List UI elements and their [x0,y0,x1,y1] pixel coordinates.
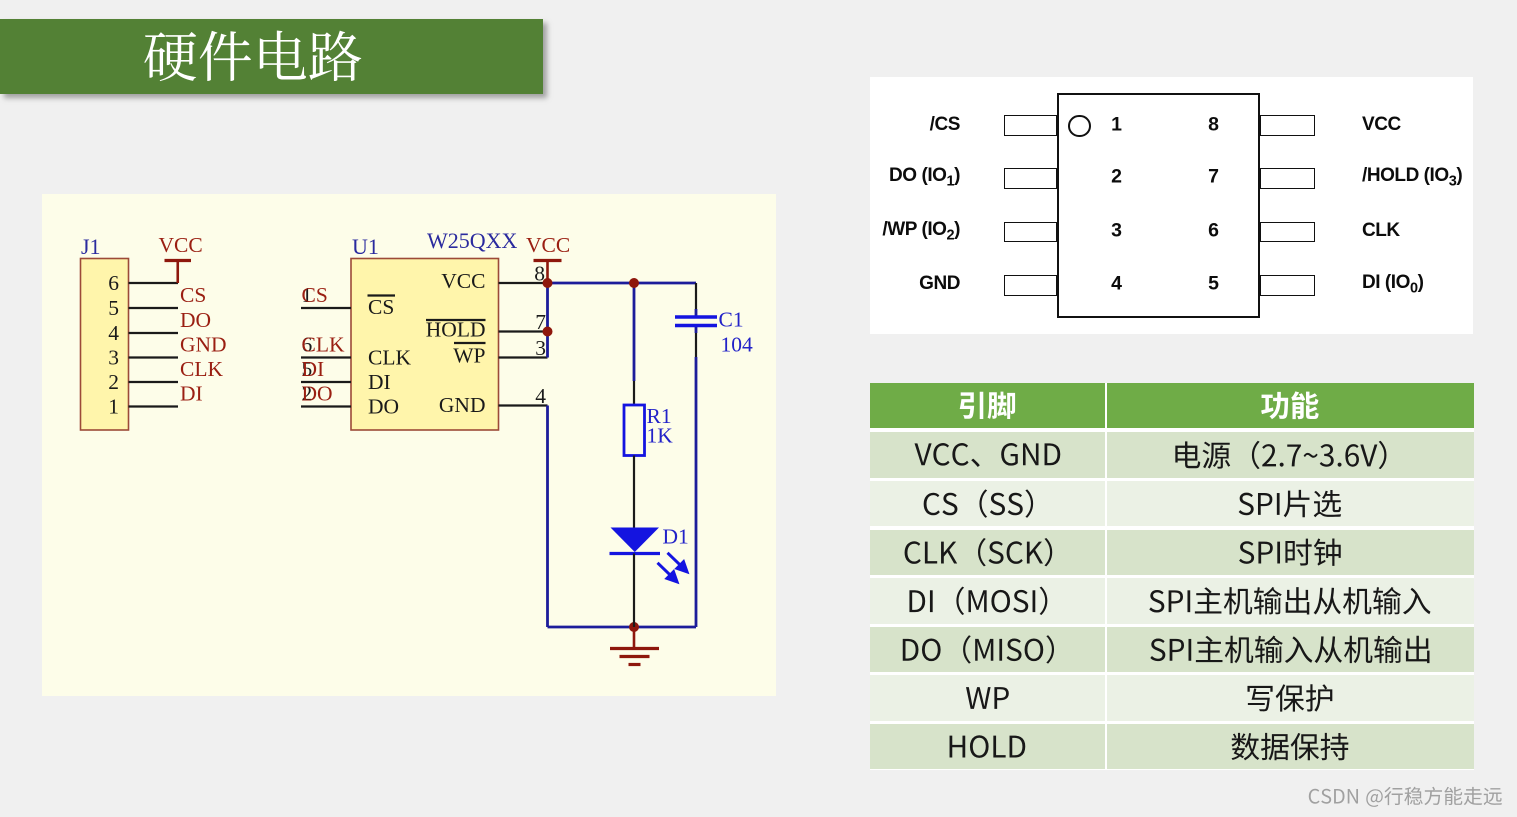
svg-text:2: 2 [108,370,119,394]
IC U1 body [351,259,499,431]
svg-text:CLK: CLK [368,346,411,370]
junction at HOLD pin 7 [543,327,553,337]
svg-text:DI: DI [302,357,325,381]
wire HOLD/WP tie to VCC [546,283,549,358]
svg-text:VCC: VCC [526,233,570,257]
overline for HOLD [426,319,486,321]
table row 7 background [870,724,1105,770]
wire ground bottom rail [548,626,697,629]
wire U1 pin 1 (CS) [301,307,351,309]
wire VCC top rail [548,282,697,285]
pin function table [870,383,1474,770]
pinout pin number 6 [1208,220,1219,243]
wire U1 pin 7 (HOLD) [499,330,548,332]
table row 5 right: SPI主机输入从机输出 [1150,636,1429,664]
table row 6 right: 写保护 [1247,684,1332,711]
wire D1 to ground rail [633,554,635,628]
pinout pin number 5 [1208,273,1219,296]
wire U1 pin 6 (CLK) [301,356,351,358]
table row 4 right: SPI主机输出从机输入 [1149,587,1430,615]
svg-text:VCC: VCC [159,233,203,257]
package pin stub left 1 [1004,115,1057,136]
pinout label /HOLD (IO3) [1362,165,1462,190]
package pin stub right 6 [1260,222,1315,243]
table row 3 right: SPI时钟 [1239,539,1341,566]
table row 2 background [870,481,1105,527]
svg-text:GND: GND [439,393,486,417]
table row 5 background [870,627,1105,673]
package pin stub right 7 [1260,168,1315,189]
table row 1 background [870,432,1105,478]
pinout label DI (IO0) [1362,272,1423,297]
svg-text:CLK: CLK [180,357,223,381]
IC package body [1057,93,1260,318]
wire U1 pin 8 (VCC) [499,282,548,284]
junction at VCC pin 8 [543,278,553,288]
wire rail to R1 [633,283,636,381]
svg-text:D1: D1 [663,525,689,549]
pinout label VCC [1362,114,1401,136]
wire U1 pin 4 (GND) [499,404,548,406]
table row 1 left: VCC、GND [915,443,1061,467]
svg-text:1K: 1K [647,424,674,448]
table row 6 background [870,675,1105,721]
table row 4 background [870,578,1105,624]
wire C1 top lead [695,309,698,316]
pinout label GND [919,274,960,296]
svg-text:DO: DO [180,308,211,332]
pinout label CLK [1362,220,1400,242]
wire C1 top stub [695,283,697,309]
table header row [870,383,1105,428]
table row 3 left: CLK（SCK） [905,538,1053,566]
power stem VCC (J1) [176,261,179,284]
table row 6 left: WP [966,687,1009,709]
pinout pin number 3 [1111,220,1122,243]
svg-text:6: 6 [108,271,119,295]
pin 1 indicator circle [1068,115,1091,138]
svg-text:W25QXX: W25QXX [427,228,518,253]
pinout label /WP (IO2) [882,219,960,244]
slide title 硬件电路 [144,30,361,81]
LED D1 emission arrows [658,553,688,582]
svg-text:C1: C1 [719,308,744,332]
wire J1 pin 5 [129,307,179,309]
power bar VCC (J1) [165,259,192,262]
table row 4 left: DI（MOSI） [909,587,1047,615]
wire C1 bottom stub [695,333,697,357]
svg-text:CS: CS [368,295,394,319]
svg-text:VCC: VCC [441,269,485,293]
pinout diagram panel [870,77,1473,334]
svg-text:1: 1 [108,395,119,419]
pinout pin number 2 [1111,166,1122,189]
svg-text:WP: WP [453,344,485,368]
wire U1 pin 2 (DO) [301,405,351,407]
capacitor C1 plates [675,315,717,318]
table row 5 left: DO（MISO） [903,635,1054,663]
svg-text:CS: CS [180,283,206,307]
wire C1 bottom lead [695,325,698,333]
svg-text:DI: DI [180,382,203,406]
pinout pin number 4 [1111,273,1122,296]
svg-text:3: 3 [108,346,119,370]
svg-text:5: 5 [108,296,119,320]
table row 7 left: HOLD [950,735,1026,758]
wire R1 top stub [633,381,635,405]
power stem VCC (U1) [546,261,549,284]
junction at R1 top [629,278,639,288]
wire GND pin down [546,406,549,628]
table row 7 right: 数据保持 [1231,733,1348,761]
package pin stub left 4 [1004,275,1057,296]
svg-text:DI: DI [368,370,391,394]
package pin stub left 2 [1004,168,1057,189]
pinout pin number 1 [1111,113,1122,136]
svg-text:U1: U1 [352,234,379,259]
table header cell: 引脚 [960,392,1015,419]
overline for CS [368,294,396,296]
wire J1 pin 4 [129,332,179,334]
pinout pin number 7 [1208,166,1219,189]
overline for WP [454,342,486,344]
wire J1 pin 3 [129,356,179,358]
wire R1 to D1 [633,456,635,529]
LED D1 [611,528,660,553]
watermark CSDN @行稳方能走远 [1309,787,1502,807]
table row 1 right: 电源（2.7~3.6V） [1175,441,1386,469]
wire C1 to bottom rail [695,357,698,627]
svg-text:GND: GND [180,333,227,357]
package pin stub left 3 [1004,222,1057,243]
schematic background panel [42,194,776,696]
pinout pin number 8 [1208,113,1219,136]
wire J1 pin 6 [129,282,179,284]
resistor R1 [624,405,645,456]
svg-text:J1: J1 [81,234,101,259]
package pin stub right 5 [1260,275,1315,296]
connector J1 body [81,259,129,431]
svg-text:DO: DO [302,382,333,406]
svg-text:DO: DO [368,395,399,419]
pinout label DO (IO1) [889,165,960,190]
wire J1 pin 1 [129,405,179,407]
svg-text:CS: CS [302,283,328,307]
wire U1 pin 5 (DI) [301,381,351,383]
table row 3 background [870,530,1105,576]
table header cell: 功能 [1261,391,1319,419]
table row 2 right: SPI片选 [1239,490,1342,517]
table row 2 left: CS（SS） [924,489,1033,517]
package pin stub right 8 [1260,115,1315,136]
power bar VCC (U1) [534,259,562,262]
svg-text:CLK: CLK [302,333,345,357]
wire U1 pin 3 (WP) [499,356,548,358]
green title banner [0,19,543,94]
svg-text:104: 104 [721,333,754,357]
ground symbol [633,627,636,649]
svg-text:4: 4 [108,321,119,345]
wire J1 pin 2 [129,381,179,383]
junction at ground [629,622,639,632]
LED D1 cathode bar [610,552,661,555]
pinout label /CS [930,114,960,136]
